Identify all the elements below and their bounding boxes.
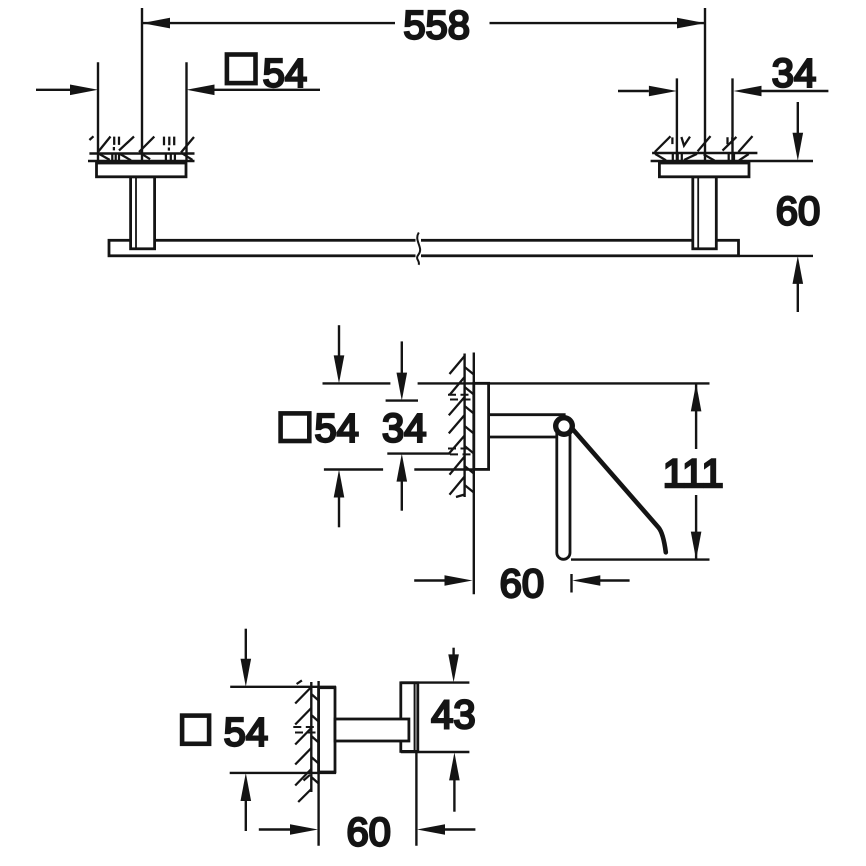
hook stem <box>335 719 409 741</box>
bottom dim 43 up arrow <box>449 752 460 780</box>
wall line 2 (bottom, extends down to 60 dim) <box>317 681 319 846</box>
right wall line 1 <box>652 152 757 154</box>
mid top extension line (54/111), with gap at arrow2 head <box>323 382 391 384</box>
dim 34 (top) right extension line <box>731 78 733 161</box>
mid dim 60 left arrow <box>414 579 445 581</box>
left wall line 2 <box>88 160 195 162</box>
right escutcheon plate <box>659 163 749 177</box>
bottom 43 top extension line <box>401 681 470 683</box>
dim 558 right extension line <box>704 8 706 161</box>
mid dim 54 up arrow <box>334 470 345 498</box>
svg-text:60: 60 <box>500 562 545 606</box>
escutcheon (bottom, side view) <box>319 688 335 772</box>
dim 54 (top) left extension line <box>97 62 99 161</box>
mid 111 bottom extension line <box>571 558 710 560</box>
towel bar rail <box>109 240 739 256</box>
dim 54 (top) outside arrow right <box>187 85 215 96</box>
wall line 1 (bottom) <box>310 682 312 792</box>
dim 558 left arrowhead <box>142 18 170 29</box>
mid 60 right extension line <box>570 574 572 593</box>
mid dim 54 down arrow <box>338 325 340 356</box>
dim 558 line left segment <box>142 22 395 24</box>
dim 558 line right segment <box>490 22 706 24</box>
svg-text:60: 60 <box>346 811 391 855</box>
extension line from bar bottom to right <box>740 255 814 257</box>
svg-text:34: 34 <box>772 52 817 96</box>
break squiggle <box>417 233 420 265</box>
left wall line 1 <box>89 152 194 154</box>
mid 54 bottom extension line, with gap at arrow head <box>324 468 383 470</box>
mid dim 111 line upper segment <box>695 383 697 449</box>
wall line 1 (mid) <box>463 354 465 498</box>
escutcheon (mid, side view) <box>474 383 489 469</box>
bottom dim 60 left arrow <box>259 828 291 830</box>
bottom dim 43 down arrow <box>452 648 454 656</box>
mid 34 bottom extension line <box>387 452 450 454</box>
svg-text:558: 558 <box>403 4 470 48</box>
svg-text:54: 54 <box>224 711 269 755</box>
svg-text:54: 54 <box>263 51 308 95</box>
pivot knob outer <box>553 415 575 437</box>
right post inner line <box>697 178 699 248</box>
roller holder U bar <box>557 428 570 559</box>
svg-text:43: 43 <box>431 693 476 737</box>
break mark white gap on bar <box>416 237 422 259</box>
screw centre dashes (bottom) <box>293 727 318 733</box>
left post inner line <box>135 178 137 248</box>
mid dim 111 line lower segment <box>695 495 697 560</box>
bottom 54 bottom extension line <box>230 772 336 774</box>
dim 34 (top) outside arrow right <box>734 86 762 97</box>
dim 60 (top) upper arrow (down) <box>797 102 799 134</box>
hook plate <box>401 683 418 752</box>
dim 34 (top) left extension line <box>676 78 678 161</box>
dim 54 (top) right extension line <box>185 62 187 161</box>
square symbol (bottom 54) <box>182 716 209 744</box>
right wall line 2 (extends right to 60-dim arrow) <box>651 160 813 162</box>
right post <box>693 177 717 249</box>
dim 34 (top) outside arrow left <box>618 90 649 92</box>
bottom dim 54 up arrow <box>241 773 252 801</box>
dim 60 (top) lower arrow (up) <box>793 256 804 284</box>
bottom dim 60 right arrow <box>417 824 445 835</box>
dim 558 left extension line <box>141 8 143 161</box>
wall line 2 (mid) <box>473 353 475 595</box>
square symbol (mid 54) <box>281 413 310 441</box>
hook plate inner line <box>414 684 416 751</box>
svg-text:111: 111 <box>663 452 724 496</box>
bottom 60 right extension line <box>415 753 417 846</box>
bottom 43 bottom extension line <box>401 751 470 753</box>
right wall hatch <box>655 136 753 161</box>
dim 54 (top) outside arrow left <box>36 89 70 91</box>
svg-text:34: 34 <box>382 407 427 451</box>
square symbol (top 54) <box>227 55 256 84</box>
wall hatch (mid) <box>449 356 474 497</box>
mid 34 top extension line <box>386 399 418 401</box>
left escutcheon plate <box>97 163 187 177</box>
dim 558 right arrowhead <box>677 18 705 29</box>
paper flap spring <box>566 422 666 553</box>
mid dim 60 right arrow <box>572 575 600 586</box>
mid dim 111 down arrowhead <box>691 532 702 560</box>
wall hatch (bottom) <box>295 680 318 802</box>
pivot knob hole <box>558 420 569 431</box>
arm bottom line <box>489 436 558 439</box>
bottom dim 54 down arrow <box>245 629 247 660</box>
left wall hatch <box>89 136 194 160</box>
svg-text:54: 54 <box>314 407 359 451</box>
mid dim 34 down arrow <box>401 341 403 373</box>
left post <box>131 177 155 249</box>
svg-text:60: 60 <box>776 190 821 234</box>
arm top line <box>489 413 566 416</box>
bottom 54 top extension line <box>230 686 336 688</box>
mid dim 111 up arrowhead <box>691 383 702 411</box>
screw centre dashes (mid, upper screw) <box>448 395 474 455</box>
mid dim 34 up arrow <box>397 454 408 482</box>
